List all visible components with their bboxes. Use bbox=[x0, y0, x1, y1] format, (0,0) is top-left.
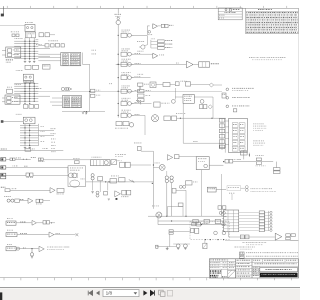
relay K10 bbox=[116, 198, 184, 216]
wire bbox=[131, 115, 145, 135]
wire bbox=[131, 100, 151, 103]
label 23 bbox=[109, 82, 112, 85]
annotation text 2 bbox=[227, 186, 276, 200]
relay contacts K11 bbox=[96, 191, 107, 197]
sensor B1 bbox=[154, 102, 170, 107]
ground bbox=[156, 234, 176, 250]
interlock module U20 bbox=[68, 166, 86, 187]
pump P1 bbox=[152, 206, 162, 218]
relay contacts K7 bbox=[86, 174, 153, 192]
revision note 1 bbox=[240, 252, 299, 255]
terminal X4 bbox=[1, 173, 68, 179]
viewer toolbar bbox=[0, 287, 300, 300]
ladder wires bbox=[265, 211, 269, 231]
comparator row bbox=[83, 61, 219, 112]
resistor pair R14 bbox=[90, 89, 100, 97]
resistor R11 bbox=[110, 176, 125, 183]
ground bbox=[24, 147, 31, 148]
note 1 bbox=[226, 88, 254, 91]
relay K2 bbox=[16, 70, 34, 82]
power supply PS2 bbox=[6, 230, 49, 237]
wire bus bottom bbox=[148, 216, 227, 226]
connector J2 bbox=[2, 95, 20, 104]
op-amp U21 bbox=[167, 155, 196, 161]
annotation text bbox=[249, 57, 286, 60]
annotation text 4 bbox=[235, 247, 255, 250]
ground G2 bbox=[173, 244, 190, 250]
valve V2 bbox=[208, 97, 213, 118]
resistor R12 bbox=[220, 143, 226, 148]
note 3 bbox=[226, 105, 249, 108]
test point TP1 bbox=[84, 111, 89, 114]
resistor network R5 bbox=[138, 87, 151, 105]
contact pair CP1 bbox=[218, 206, 226, 215]
line filter FL1 bbox=[73, 157, 110, 166]
wire bus (cluster B) bbox=[14, 81, 50, 102]
transformer T1 bbox=[115, 8, 122, 33]
op-amp U19 bbox=[275, 233, 298, 240]
wire bus (cluster A) bbox=[14, 35, 50, 61]
terminal stubs bbox=[51, 139, 56, 152]
terminal block TB1 bbox=[151, 39, 172, 50]
breaker CB3 bbox=[118, 59, 141, 67]
resistor row R4 bbox=[23, 103, 38, 108]
terminal X1 bbox=[0, 148, 63, 151]
jumper bbox=[233, 109, 237, 112]
ground legend symbols bbox=[218, 8, 242, 20]
relay contacts K8 bbox=[165, 171, 173, 216]
IC U2 bbox=[38, 50, 96, 66]
relay K9 bbox=[207, 187, 226, 192]
op-amp U22 bbox=[108, 180, 135, 201]
meter symbols bbox=[61, 87, 71, 90]
wire bbox=[240, 150, 247, 159]
wire bbox=[0, 24, 25, 26]
ground bbox=[24, 61, 36, 62]
note 2 bbox=[226, 97, 250, 100]
svg-text:1/8: 1/8 bbox=[106, 291, 113, 296]
op-amp U12 bbox=[28, 198, 50, 204]
wire bbox=[225, 240, 298, 242]
ground bbox=[82, 113, 88, 114]
contactor M4 bbox=[118, 110, 140, 118]
relay contact K6 bbox=[4, 196, 28, 202]
wire bbox=[131, 26, 149, 35]
wire bbox=[183, 103, 220, 143]
window corner bbox=[0, 292, 2, 300]
resistor stack R7 bbox=[219, 118, 224, 150]
ground bbox=[91, 192, 94, 193]
contactor M2 bbox=[118, 86, 140, 94]
wire bbox=[131, 74, 150, 78]
op-amp U13 bbox=[32, 220, 55, 225]
indicator lamp L1 bbox=[115, 122, 134, 129]
breaker CB1 bbox=[118, 30, 134, 38]
contactor M1 bbox=[118, 72, 141, 80]
filter row F2 bbox=[193, 219, 221, 223]
op-amp U11 bbox=[50, 188, 64, 195]
relay K1 bbox=[11, 22, 39, 40]
power supply PS1 bbox=[6, 218, 32, 225]
annotation text 3 bbox=[243, 242, 267, 245]
inverter U17 bbox=[196, 157, 223, 170]
resistor R13 bbox=[186, 170, 222, 217]
inrush circuit bbox=[137, 36, 147, 49]
op-amp U8 bbox=[150, 81, 209, 88]
output row bbox=[229, 232, 275, 239]
resistor R1 bbox=[39, 33, 55, 37]
revision note 2 bbox=[240, 256, 298, 259]
terminal X3 bbox=[1, 166, 68, 173]
relay K3 bbox=[1, 114, 35, 124]
terminal strip TS1 bbox=[225, 118, 250, 157]
capacitor C3 bbox=[169, 230, 190, 234]
filter row F1 bbox=[223, 155, 280, 174]
terminal strip TS2 bbox=[222, 210, 272, 232]
heater row H1 bbox=[152, 113, 227, 122]
wire bbox=[152, 151, 154, 209]
contactor M3 bbox=[118, 98, 141, 106]
annotation text 5 bbox=[253, 124, 266, 131]
capacitor C2 bbox=[111, 160, 122, 165]
op-amp U15 bbox=[39, 246, 69, 252]
wire bbox=[131, 51, 153, 54]
power supply PS3 bbox=[6, 244, 39, 251]
title block bbox=[209, 259, 298, 278]
annotation text 6 bbox=[253, 141, 265, 146]
connector J1 bbox=[2, 47, 21, 63]
resistor R6 bbox=[138, 83, 150, 91]
IC U3 bbox=[50, 96, 82, 108]
motor M5 bbox=[153, 163, 165, 171]
op-amp U14 bbox=[49, 232, 78, 237]
terminal T9 bbox=[222, 93, 226, 98]
wire bbox=[20, 91, 222, 92]
resistor R3 bbox=[7, 87, 13, 93]
legend label box bbox=[219, 12, 235, 18]
resistor R2 bbox=[25, 65, 50, 70]
terminal X5 bbox=[1, 187, 50, 192]
ground bbox=[30, 249, 33, 259]
varistor RV1 bbox=[203, 240, 207, 249]
wire bbox=[117, 33, 119, 118]
valve V1 bbox=[209, 83, 222, 87]
symbol legend table bbox=[246, 8, 299, 33]
capacitor C1 bbox=[134, 143, 153, 152]
breaker CB2 bbox=[118, 49, 140, 57]
op-amp U6 bbox=[148, 24, 173, 35]
sensor assembly bbox=[115, 154, 151, 168]
node A (sheet edge connector) bbox=[1, 6, 4, 16]
control unit U18 bbox=[190, 221, 229, 240]
wire bus (cluster C) bbox=[20, 124, 56, 147]
op-amp U7b bbox=[153, 53, 164, 58]
wire bbox=[62, 111, 105, 112]
terminal row bbox=[38, 41, 64, 48]
controller U9 bbox=[172, 88, 214, 109]
terminal X2 bbox=[1, 157, 91, 162]
resistor R8 bbox=[172, 185, 186, 216]
